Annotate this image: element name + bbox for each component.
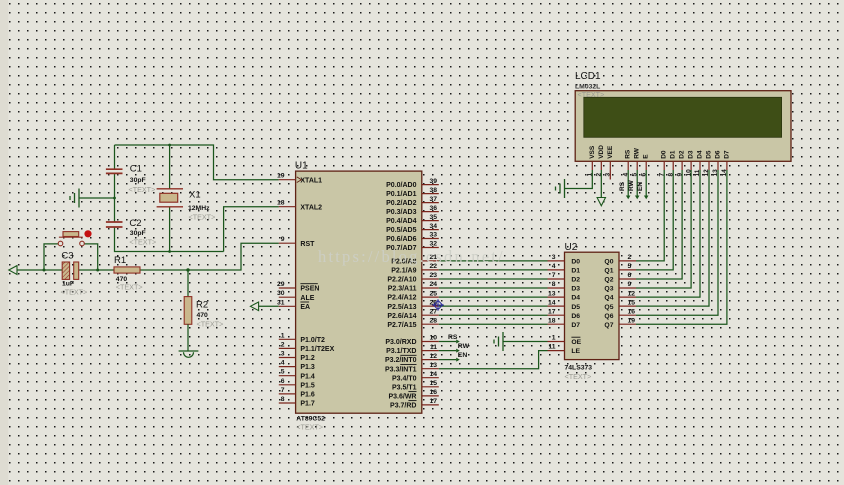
svg-text:P2.6/A14: P2.6/A14 bbox=[387, 313, 416, 320]
svg-text:D6: D6 bbox=[715, 150, 722, 159]
marker blue origin (pin 26) bbox=[432, 299, 444, 311]
svg-text:12: 12 bbox=[703, 169, 710, 177]
U1 pin 31 EA bbox=[277, 299, 310, 311]
svg-text:<TEXT>: <TEXT> bbox=[189, 213, 216, 222]
svg-text:U2: U2 bbox=[565, 242, 578, 253]
svg-text:OE: OE bbox=[571, 339, 581, 346]
LCD pin 2 VDD bbox=[596, 145, 605, 177]
svg-text:EN: EN bbox=[637, 182, 644, 191]
wire Q7 to LCD D7 bbox=[636, 170, 727, 324]
svg-text:D1: D1 bbox=[571, 268, 580, 275]
U1 pin 8 P1.7 bbox=[279, 396, 315, 408]
arrow net RW bbox=[456, 349, 460, 353]
svg-text:8: 8 bbox=[552, 281, 556, 288]
ground GND1 (C1/C2 node) bbox=[70, 189, 79, 208]
U1 pin 24 P2.3/A11 bbox=[388, 281, 439, 292]
svg-text:<TEXT>: <TEXT> bbox=[116, 283, 143, 292]
U1 pin 14 P3.4/T0 bbox=[392, 371, 439, 382]
U2 pin 18 D7 bbox=[548, 317, 581, 329]
svg-text:11: 11 bbox=[694, 169, 701, 176]
svg-text:Q1: Q1 bbox=[604, 268, 613, 275]
svg-text:16: 16 bbox=[628, 308, 636, 315]
wire R2 top lead bbox=[187, 270, 189, 297]
svg-text:P2.4/A12: P2.4/A12 bbox=[387, 295, 416, 302]
crystal X1 bbox=[157, 189, 183, 207]
svg-text:RS: RS bbox=[448, 334, 458, 341]
svg-text:D1: D1 bbox=[670, 150, 677, 159]
svg-text:24: 24 bbox=[429, 281, 437, 288]
svg-text:13: 13 bbox=[429, 362, 437, 369]
LCD LCD1 body bbox=[575, 91, 791, 162]
wire Q2 to LCD D2 bbox=[636, 170, 682, 279]
svg-text:4: 4 bbox=[552, 263, 556, 270]
svg-text:D0: D0 bbox=[661, 150, 668, 159]
wire P2.5 to 74LS373 D5 bbox=[439, 305, 548, 307]
svg-text:D3: D3 bbox=[688, 150, 695, 159]
svg-text:12: 12 bbox=[429, 353, 437, 360]
svg-text:3: 3 bbox=[281, 351, 285, 358]
wire VSS to ground bbox=[565, 170, 593, 189]
junction X1 top rail bbox=[168, 144, 171, 147]
junction button right leg on rail bbox=[96, 269, 99, 272]
wire net RS stub bbox=[439, 341, 456, 343]
svg-text:33: 33 bbox=[429, 232, 437, 239]
svg-text:D6: D6 bbox=[571, 313, 580, 320]
junction button left leg on rail bbox=[43, 269, 46, 272]
svg-text:U1: U1 bbox=[295, 160, 308, 171]
svg-text:<TEXT>: <TEXT> bbox=[129, 238, 156, 247]
svg-text:P0.1/AD1: P0.1/AD1 bbox=[386, 191, 416, 198]
U1 pin 37 P0.2/AD2 bbox=[386, 196, 439, 207]
svg-text:1: 1 bbox=[552, 335, 556, 342]
svg-text:P1.4: P1.4 bbox=[300, 373, 315, 380]
terminal arrow down (VDD) bbox=[597, 198, 605, 206]
U1 pin 9 RST bbox=[279, 236, 315, 248]
ground GND2 (below R2) bbox=[179, 351, 199, 357]
U1 pin 25 P2.4/A12 bbox=[387, 290, 438, 301]
svg-text:<TEXT>: <TEXT> bbox=[129, 185, 156, 194]
U2 pin 13 D4 bbox=[548, 290, 581, 301]
input terminal arrow (EA) bbox=[250, 302, 258, 311]
LCD display window bbox=[584, 97, 782, 137]
U1 pin 28 P2.7/A15 bbox=[387, 317, 438, 329]
U1 pin 27 P2.6/A14 bbox=[387, 308, 438, 319]
svg-text:18: 18 bbox=[277, 200, 285, 207]
LCD pin 11 D4 bbox=[694, 150, 703, 176]
svg-text:PSEN: PSEN bbox=[300, 286, 319, 293]
svg-text:19: 19 bbox=[277, 173, 285, 180]
U1 pin 11 P3.1/TXD bbox=[386, 344, 439, 355]
LCD pin 5 RW bbox=[631, 147, 640, 176]
ground GND4 (LCD VSS) bbox=[556, 179, 565, 198]
wire Q0 to LCD D0 bbox=[636, 170, 664, 261]
wire P2.7 to 74LS373 D7 bbox=[439, 323, 548, 325]
LCD pin 4 RS bbox=[622, 149, 631, 176]
junction C1/C2 ground tap bbox=[113, 197, 116, 200]
resistor R1 bbox=[114, 267, 140, 273]
svg-text:Q7: Q7 bbox=[604, 322, 613, 329]
svg-text:16: 16 bbox=[429, 389, 437, 396]
svg-text:P3.0/RXD: P3.0/RXD bbox=[385, 339, 416, 346]
U2 pin 19 Q7 bbox=[604, 317, 636, 329]
svg-text:2: 2 bbox=[628, 254, 632, 261]
U2 pin 6 Q2 bbox=[604, 272, 636, 283]
capacitor C3 bbox=[62, 262, 78, 279]
U1 pin 5 P1.4 bbox=[279, 369, 315, 381]
wire XTAL2 net to U1 pin 18 bbox=[224, 207, 279, 252]
U1 pin 36 P0.3/AD3 bbox=[386, 205, 439, 216]
svg-text:X1: X1 bbox=[189, 190, 201, 201]
svg-text:15: 15 bbox=[628, 299, 636, 306]
svg-text:14: 14 bbox=[548, 299, 556, 306]
svg-text:VEE: VEE bbox=[607, 145, 614, 159]
U1 pin 7 P1.6 bbox=[279, 387, 315, 399]
svg-text:P2.1/A9: P2.1/A9 bbox=[391, 268, 416, 275]
svg-text:10: 10 bbox=[685, 169, 692, 177]
arrow net RW (LCD side) bbox=[635, 196, 640, 200]
arrow net EN bbox=[456, 358, 460, 362]
svg-text:P0.6/AD6: P0.6/AD6 bbox=[386, 236, 416, 243]
svg-text:9: 9 bbox=[628, 281, 632, 288]
svg-text:13: 13 bbox=[712, 169, 719, 177]
svg-text:8: 8 bbox=[667, 173, 674, 177]
svg-text:1uF: 1uF bbox=[62, 281, 74, 288]
U1 pin 32 P0.7/AD7 bbox=[386, 241, 439, 252]
U1 pin 6 P1.5 bbox=[279, 378, 315, 390]
arrow net RS bbox=[456, 340, 460, 344]
wire X1 top branch bbox=[169, 145, 171, 189]
svg-text:D0: D0 bbox=[571, 259, 580, 266]
svg-text:2: 2 bbox=[281, 341, 285, 348]
svg-text:P2.7/A15: P2.7/A15 bbox=[387, 322, 416, 329]
wire P2.4 to 74LS373 D4 bbox=[439, 296, 548, 298]
push button (reset) bbox=[58, 232, 84, 246]
LCD pin 3 VEE bbox=[605, 145, 614, 176]
wire Q4 to LCD D4 bbox=[636, 170, 700, 297]
svg-text:D7: D7 bbox=[571, 322, 580, 329]
U2 pin 12 Q4 bbox=[604, 290, 636, 301]
svg-text:RW: RW bbox=[634, 147, 641, 159]
wire C2 bottom to XTAL2 riser bbox=[115, 227, 224, 252]
LCD pin 10 D3 bbox=[685, 150, 694, 176]
wire net EN stub bbox=[439, 359, 456, 361]
U1 pin 23 P2.2/A10 bbox=[387, 272, 438, 283]
svg-text:P1.6: P1.6 bbox=[300, 392, 315, 399]
svg-text:P3.4/T0: P3.4/T0 bbox=[392, 375, 417, 382]
svg-text:RS: RS bbox=[619, 181, 626, 191]
U1 pin 15 P3.5/T1 bbox=[392, 380, 439, 391]
svg-text:13: 13 bbox=[548, 290, 556, 297]
svg-text:7: 7 bbox=[552, 272, 556, 279]
svg-text:470: 470 bbox=[197, 312, 209, 319]
svg-text:5: 5 bbox=[281, 369, 285, 376]
svg-text:36: 36 bbox=[429, 205, 437, 212]
svg-text:P1.2: P1.2 bbox=[300, 355, 315, 362]
svg-text:RST: RST bbox=[300, 241, 315, 248]
wire P2.0 to 74LS373 D0 bbox=[439, 260, 548, 262]
svg-text:38: 38 bbox=[429, 187, 437, 194]
U1 pin 39 P0.0/AD0 bbox=[386, 178, 439, 189]
svg-text:11: 11 bbox=[548, 344, 555, 351]
svg-text:Q3: Q3 bbox=[604, 286, 613, 293]
svg-text:30: 30 bbox=[277, 290, 285, 297]
svg-text:P0.4/AD4: P0.4/AD4 bbox=[386, 218, 416, 225]
wire reset rail (C3 to RST pin) bbox=[79, 243, 279, 270]
svg-text:D5: D5 bbox=[571, 304, 580, 311]
svg-text:P1.7: P1.7 bbox=[300, 401, 315, 408]
svg-text:VDD: VDD bbox=[598, 145, 605, 159]
U2 pin 16 Q6 bbox=[604, 308, 636, 319]
wire LCD RS net bbox=[627, 170, 629, 196]
wire ground tap to C1/C2 node bbox=[79, 197, 115, 199]
LCD pin 14 D7 bbox=[721, 150, 730, 176]
U1 pin 38 P0.1/AD1 bbox=[386, 187, 439, 198]
svg-text:VSS: VSS bbox=[589, 145, 596, 159]
U1 pin 2 P1.1/T2EX bbox=[279, 341, 335, 353]
svg-text:D3: D3 bbox=[571, 286, 580, 293]
svg-text:<TEXT>: <TEXT> bbox=[61, 288, 88, 297]
svg-text:19: 19 bbox=[628, 317, 636, 324]
input terminal arrow (reset rail) bbox=[9, 266, 17, 275]
U1 pin 35 P0.4/AD4 bbox=[386, 214, 439, 225]
resistor R2 bbox=[184, 297, 192, 325]
U1 pin 13 P3.3/INT1 bbox=[385, 362, 439, 373]
svg-text:3: 3 bbox=[552, 254, 556, 261]
svg-text:P3.6/WR: P3.6/WR bbox=[388, 394, 416, 401]
svg-text:R2: R2 bbox=[196, 300, 208, 311]
svg-text:P0.3/AD3: P0.3/AD3 bbox=[386, 209, 416, 216]
capacitor C2 bbox=[106, 222, 123, 227]
svg-text:31: 31 bbox=[277, 299, 285, 306]
U2 pin 15 Q5 bbox=[604, 299, 636, 311]
svg-text:27: 27 bbox=[429, 308, 437, 315]
wire X1 bottom branch bbox=[169, 207, 171, 252]
svg-text:AT89C52: AT89C52 bbox=[296, 416, 325, 423]
svg-text:LCD1: LCD1 bbox=[575, 71, 601, 82]
U1 pin 22 P2.1/A9 bbox=[391, 263, 439, 275]
wire reset rail left (arrow to C3) bbox=[17, 269, 62, 271]
U1 pin 26 P2.5/A13 bbox=[387, 299, 438, 311]
svg-text:7: 7 bbox=[281, 387, 285, 394]
svg-text:C2: C2 bbox=[129, 218, 141, 229]
svg-text:Q6: Q6 bbox=[604, 313, 613, 320]
wire Q1 to LCD D1 bbox=[636, 170, 673, 270]
svg-text:Q5: Q5 bbox=[604, 304, 613, 311]
svg-text:D5: D5 bbox=[706, 150, 713, 159]
svg-text:74LS373: 74LS373 bbox=[565, 364, 593, 371]
U1 pin 21 P2.0/A8 bbox=[391, 254, 439, 265]
svg-text:R1: R1 bbox=[114, 255, 126, 266]
svg-text:<TEXT>: <TEXT> bbox=[565, 372, 592, 381]
U1 pin 18 XTAL2 bbox=[277, 200, 322, 212]
LCD pin 13 D6 bbox=[712, 150, 721, 176]
LCD pin 6 E bbox=[640, 154, 649, 177]
svg-text:11: 11 bbox=[430, 344, 437, 351]
svg-text:P2.2/A10: P2.2/A10 bbox=[387, 277, 416, 284]
wire VDD terminal bbox=[600, 170, 602, 198]
svg-text:P3.5/T1: P3.5/T1 bbox=[392, 384, 417, 391]
svg-text:D7: D7 bbox=[723, 150, 730, 159]
svg-text:12: 12 bbox=[628, 290, 636, 297]
svg-text:P0.5/AD5: P0.5/AD5 bbox=[386, 227, 416, 234]
U1 pin 33 P0.6/AD6 bbox=[386, 232, 439, 243]
latch U2 74LS373 body bbox=[565, 252, 620, 359]
svg-text:17: 17 bbox=[548, 308, 556, 315]
svg-text:P3.2/INT0: P3.2/INT0 bbox=[385, 357, 417, 364]
junction R2 on reset rail bbox=[186, 268, 189, 271]
svg-text:P2.3/A11: P2.3/A11 bbox=[388, 286, 417, 293]
wire ground to OE bbox=[503, 341, 548, 343]
svg-text:17: 17 bbox=[429, 398, 437, 405]
svg-text:P2.5/A13: P2.5/A13 bbox=[387, 304, 416, 311]
svg-text:23: 23 bbox=[429, 272, 437, 279]
svg-text:9: 9 bbox=[281, 236, 285, 243]
U1 pin 1 P1.0/T2 bbox=[279, 332, 325, 344]
wire VEE stub bbox=[609, 170, 611, 180]
svg-text:4: 4 bbox=[281, 360, 285, 367]
svg-text:P1.3: P1.3 bbox=[300, 364, 315, 371]
U2 pin 7 D2 bbox=[548, 272, 581, 283]
U2 pin 4 D1 bbox=[548, 263, 581, 275]
svg-text:39: 39 bbox=[429, 178, 437, 185]
wire P2.2 to 74LS373 D2 bbox=[439, 278, 548, 280]
wire C1 top lead bbox=[114, 145, 116, 169]
U2 pin 1 OE bbox=[548, 335, 582, 346]
wire P2.6 to 74LS373 D6 bbox=[439, 314, 548, 316]
wire C1-C2 mid (ground node) bbox=[114, 173, 116, 222]
svg-text:<TEXT>: <TEXT> bbox=[197, 320, 224, 329]
U1 pin 12 P3.2/INT0 bbox=[385, 353, 439, 364]
wire P2.1 to 74LS373 D1 bbox=[439, 269, 548, 271]
LCD pin 9 D2 bbox=[676, 150, 685, 176]
LCD pin 12 D5 bbox=[703, 150, 712, 176]
arrow net RS (LCD side) bbox=[626, 196, 631, 200]
wire button left leg bbox=[44, 244, 58, 270]
svg-text:1: 1 bbox=[281, 332, 285, 339]
svg-text:34: 34 bbox=[429, 223, 437, 230]
svg-text:EN: EN bbox=[458, 352, 468, 359]
svg-text:<TEXT>: <TEXT> bbox=[296, 423, 323, 432]
svg-text:8: 8 bbox=[281, 396, 285, 403]
svg-text:P0.0/AD0: P0.0/AD0 bbox=[386, 182, 416, 189]
LCD pin 7 D0 bbox=[658, 150, 667, 176]
svg-text:18: 18 bbox=[548, 317, 556, 324]
svg-text:Q4: Q4 bbox=[604, 295, 613, 302]
wire XTAL1 net (C1/X1 top to U1 pin 19) bbox=[115, 145, 279, 180]
capacitor C1 bbox=[106, 169, 123, 173]
svg-text:ALE: ALE bbox=[300, 295, 314, 302]
button red indicator dot bbox=[84, 230, 91, 237]
junction X1 bottom rail bbox=[168, 250, 171, 253]
svg-text:D4: D4 bbox=[571, 295, 580, 302]
wire P3.3 to 74LS373 LE bbox=[439, 351, 548, 369]
svg-text:D2: D2 bbox=[571, 277, 580, 284]
U1 pin 3 P1.2 bbox=[279, 351, 315, 363]
wire button right leg bbox=[84, 244, 97, 270]
svg-text:15: 15 bbox=[429, 380, 437, 387]
wire LCD RW net bbox=[636, 170, 638, 196]
svg-text:10: 10 bbox=[429, 335, 437, 342]
svg-text:P1.5: P1.5 bbox=[300, 382, 315, 389]
U2 pin 8 D3 bbox=[548, 281, 581, 292]
svg-text:5: 5 bbox=[628, 263, 632, 270]
svg-text:7: 7 bbox=[658, 173, 665, 177]
U1 pin 16 P3.6/WR bbox=[388, 389, 438, 400]
svg-text:9: 9 bbox=[676, 173, 683, 177]
svg-text:C1: C1 bbox=[130, 164, 142, 175]
svg-text:P0.2/AD2: P0.2/AD2 bbox=[386, 200, 416, 207]
arrow net EN (LCD side) bbox=[644, 196, 649, 200]
svg-text:14: 14 bbox=[429, 371, 437, 378]
LCD pin 1 VSS bbox=[587, 145, 596, 176]
U1 pin 17 P3.7/RD bbox=[390, 398, 439, 409]
U1 pin 4 P1.3 bbox=[279, 360, 315, 372]
svg-text:35: 35 bbox=[429, 214, 437, 221]
svg-text:25: 25 bbox=[429, 290, 437, 297]
svg-text:6: 6 bbox=[628, 272, 632, 279]
U2 pin 11 LE bbox=[548, 344, 581, 356]
wire Q3 to LCD D3 bbox=[636, 170, 691, 288]
svg-text:EA: EA bbox=[300, 304, 310, 311]
svg-text:P3.1/TXD: P3.1/TXD bbox=[386, 348, 416, 355]
svg-text:28: 28 bbox=[429, 317, 437, 324]
svg-text:https://blog.csdn.net/: https://blog.csdn.net/ bbox=[318, 247, 505, 266]
svg-text:D2: D2 bbox=[679, 150, 686, 159]
svg-text:D4: D4 bbox=[697, 150, 704, 159]
svg-text:30pF: 30pF bbox=[130, 177, 146, 184]
svg-text:P1.0/T2: P1.0/T2 bbox=[300, 337, 325, 344]
wire net RW stub bbox=[439, 350, 456, 352]
wire R2 bottom lead bbox=[187, 324, 189, 351]
svg-text:XTAL2: XTAL2 bbox=[300, 204, 322, 211]
svg-text:12MHz: 12MHz bbox=[188, 205, 210, 212]
svg-text:C3: C3 bbox=[61, 251, 73, 262]
svg-text:14: 14 bbox=[721, 169, 728, 177]
microcontroller U1 AT89C52 body bbox=[296, 171, 422, 413]
LCD pin 8 D1 bbox=[667, 150, 676, 176]
svg-text:P1.1/T2EX: P1.1/T2EX bbox=[300, 346, 334, 353]
U1 pin 34 P0.5/AD5 bbox=[386, 223, 439, 234]
svg-text:6: 6 bbox=[281, 378, 285, 385]
svg-text:29: 29 bbox=[277, 281, 285, 288]
U1 pin 10 P3.0/RXD bbox=[385, 335, 438, 346]
U2 pin 9 Q3 bbox=[604, 281, 636, 292]
U2 pin 14 D5 bbox=[548, 299, 581, 311]
wire Q5 to LCD D5 bbox=[636, 170, 709, 306]
svg-text:37: 37 bbox=[429, 196, 437, 203]
U2 pin 3 D0 bbox=[548, 254, 581, 265]
svg-text:30pF: 30pF bbox=[130, 230, 146, 237]
U1 pin 19 XTAL1 bbox=[277, 173, 322, 185]
U2 pin 2 Q0 bbox=[604, 254, 636, 265]
wire EA terminal stub bbox=[259, 305, 279, 307]
svg-text:Q2: Q2 bbox=[604, 277, 613, 284]
svg-text:RW: RW bbox=[628, 179, 635, 191]
wire LCD EN net bbox=[645, 170, 647, 196]
U1 pin 29 PSEN bbox=[277, 281, 320, 293]
U2 pin 5 Q1 bbox=[604, 263, 636, 275]
svg-text:P3.3/INT1: P3.3/INT1 bbox=[385, 366, 417, 373]
svg-text:P3.7/RD: P3.7/RD bbox=[390, 403, 416, 410]
svg-text:Q0: Q0 bbox=[604, 259, 613, 266]
wire P2.3 to 74LS373 D3 bbox=[439, 287, 548, 289]
wire Q6 to LCD D6 bbox=[636, 170, 718, 315]
svg-text:E: E bbox=[643, 154, 650, 159]
svg-text:RS: RS bbox=[625, 149, 632, 159]
U1 pin 30 ALE bbox=[277, 290, 315, 302]
pin marker XTAL1 chevron bbox=[297, 177, 302, 183]
U2 pin 17 D6 bbox=[548, 308, 581, 319]
